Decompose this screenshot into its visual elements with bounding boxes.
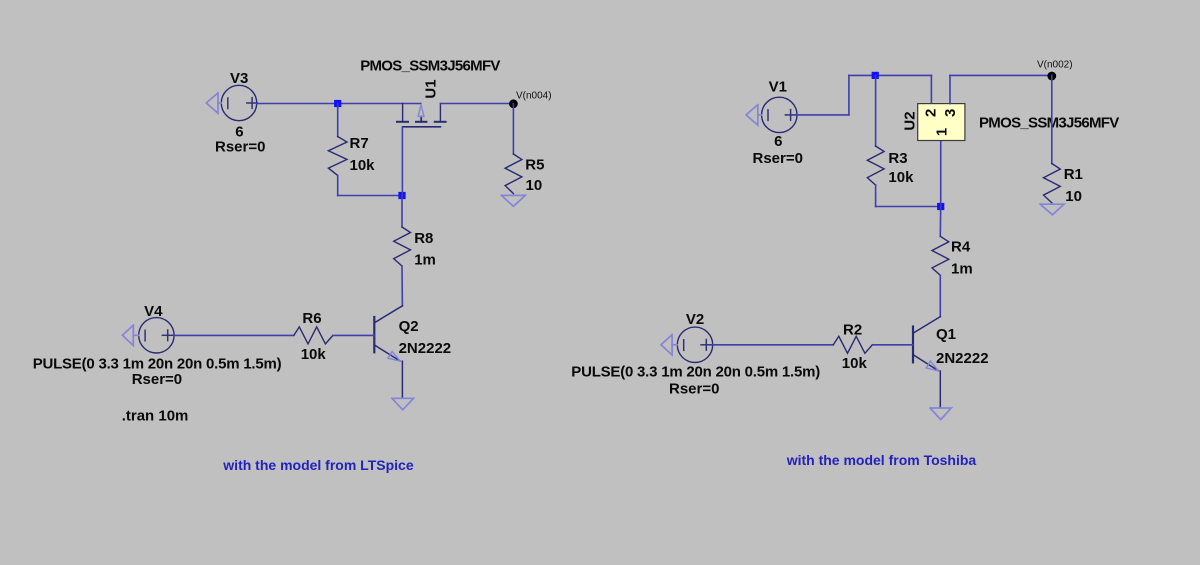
svg-text:V3: V3 xyxy=(230,70,248,87)
svg-text:Rser=0: Rser=0 xyxy=(215,138,265,155)
svg-text:1m: 1m xyxy=(414,252,436,269)
svg-text:3: 3 xyxy=(942,109,959,117)
resistor R1 xyxy=(1044,164,1061,203)
ground under Q1 emitter xyxy=(930,408,951,420)
wire node to R5 xyxy=(512,104,514,154)
svg-text:V(n002): V(n002) xyxy=(1037,59,1073,70)
wire node to R1 xyxy=(1051,75,1053,163)
resistor R7 xyxy=(328,104,347,196)
ground under Q2 emitter xyxy=(392,398,414,410)
subckt box U2 xyxy=(918,104,965,141)
svg-text:R3: R3 xyxy=(888,150,907,167)
svg-text:2: 2 xyxy=(922,109,939,117)
wire pin2 drop xyxy=(930,75,932,103)
svg-text:Rser=0: Rser=0 xyxy=(669,380,719,397)
wire R7 bottom to gate junction xyxy=(338,195,402,197)
svg-text:R8: R8 xyxy=(414,230,433,247)
resistor R5 xyxy=(505,154,522,194)
ground at V3 minus (rotated left) xyxy=(206,93,221,113)
LEFT CIRCUIT xyxy=(33,57,552,472)
node junction at R3 top xyxy=(872,72,879,79)
svg-text:10k: 10k xyxy=(888,169,914,186)
svg-text:PMOS_SSM3J56MFV: PMOS_SSM3J56MFV xyxy=(979,114,1119,131)
ground at V1 minus (rotated left) xyxy=(746,105,762,125)
svg-text:Q1: Q1 xyxy=(936,326,956,343)
transistor Q2 xyxy=(374,306,402,398)
resistor R2 xyxy=(833,336,872,353)
svg-text:10k: 10k xyxy=(350,157,376,174)
emitter arrow of Q2 xyxy=(388,351,400,361)
svg-text:R2: R2 xyxy=(843,321,862,338)
svg-text:6: 6 xyxy=(774,133,782,150)
wire R6 to Q2 base xyxy=(333,334,374,336)
node V(n002) dot xyxy=(1047,72,1056,81)
svg-text:PMOS_SSM3J56MFV: PMOS_SSM3J56MFV xyxy=(360,57,500,74)
ground at V4 minus (rotated left) xyxy=(122,325,138,345)
svg-text:1: 1 xyxy=(934,128,951,136)
ground at V2 minus (rotated left) xyxy=(661,335,677,355)
svg-text:2N2222: 2N2222 xyxy=(399,340,452,357)
wire PMOS drain to node V(n004) xyxy=(440,103,513,105)
wire corner up xyxy=(848,75,850,115)
svg-text:R4: R4 xyxy=(951,239,971,256)
svg-text:V4: V4 xyxy=(144,303,163,320)
substrate arrow of U1 xyxy=(418,105,424,117)
wire R2 to Q1 base xyxy=(872,344,913,346)
node V(n004) dot xyxy=(509,99,518,108)
wire V2 to R2 xyxy=(713,344,834,346)
wire V3 plus to PMOS source rail xyxy=(257,103,421,105)
wire pin3 rail to node V(n002) xyxy=(950,74,1052,76)
svg-text:V2: V2 xyxy=(686,311,704,328)
svg-text:with the model from LTSpice: with the model from LTSpice xyxy=(222,457,414,473)
emitter arrow of Q1 xyxy=(926,361,938,371)
wire pin3 up xyxy=(949,75,951,103)
resistor R4 xyxy=(932,207,949,317)
resistor R6 xyxy=(294,327,333,344)
resistor R3 xyxy=(867,75,884,206)
pmos U1 xyxy=(397,104,446,127)
ground under R5 xyxy=(502,195,526,206)
svg-text:R5: R5 xyxy=(525,156,544,173)
RIGHT CIRCUIT xyxy=(571,59,1119,468)
voltage source V2 xyxy=(677,327,712,362)
svg-text:2N2222: 2N2222 xyxy=(936,350,989,367)
wire V4 to R6 xyxy=(174,334,294,336)
wire top rail to pin2 xyxy=(849,74,932,76)
svg-text:R7: R7 xyxy=(350,135,369,152)
svg-text:Rser=0: Rser=0 xyxy=(753,150,803,167)
ground under R1 xyxy=(1040,204,1064,215)
transistor Q1 xyxy=(913,317,940,408)
node junction at gate xyxy=(398,192,405,199)
svg-text:10k: 10k xyxy=(842,355,868,372)
svg-text:U2: U2 xyxy=(902,111,919,130)
voltage source V4 xyxy=(139,318,174,353)
svg-text:R6: R6 xyxy=(302,310,321,327)
svg-text:10: 10 xyxy=(526,177,543,194)
svg-text:R1: R1 xyxy=(1064,166,1083,183)
svg-text:10k: 10k xyxy=(301,346,327,363)
svg-text:Rser=0: Rser=0 xyxy=(132,371,182,388)
wire gate drop xyxy=(401,127,403,196)
svg-text:with the model from Toshiba: with the model from Toshiba xyxy=(786,452,977,468)
voltage source V1 xyxy=(762,97,797,132)
svg-text:10: 10 xyxy=(1065,188,1082,205)
resistor R8 xyxy=(394,196,411,306)
svg-text:Q2: Q2 xyxy=(399,318,419,335)
wire R3 bottom to pin1 node xyxy=(876,206,941,208)
svg-text:U1: U1 xyxy=(422,79,439,98)
wire pin1 drop xyxy=(940,141,942,207)
svg-text:V(n004): V(n004) xyxy=(516,90,552,101)
svg-text:.tran 10m: .tran 10m xyxy=(122,407,189,424)
svg-text:PULSE(0 3.3 1m 20n 20n 0.5m 1.: PULSE(0 3.3 1m 20n 20n 0.5m 1.5m) xyxy=(571,363,820,380)
svg-text:V1: V1 xyxy=(769,78,787,95)
node junction at R7 top xyxy=(334,100,341,107)
voltage source V3 xyxy=(221,85,257,120)
node junction at pin1 xyxy=(937,203,944,210)
wire V1 to corner xyxy=(797,114,849,116)
svg-text:1m: 1m xyxy=(951,260,973,277)
